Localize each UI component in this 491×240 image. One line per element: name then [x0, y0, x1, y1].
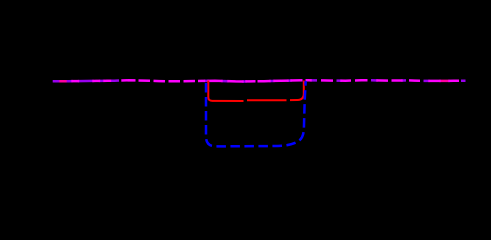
surface contour line (violet segments): [53, 80, 466, 81]
red junction contour: bottom-middle segment: [247, 99, 287, 101]
red junction contour: bottom-right segment and right wall: [290, 81, 304, 101]
blue well contour (deep tub, dashed): [206, 81, 306, 146]
surface contour line (magenta segments): [71, 80, 459, 81]
red junction contour: left wall and bottom-left segment: [208, 81, 243, 102]
surface contour line (pink segments): [59, 80, 449, 83]
